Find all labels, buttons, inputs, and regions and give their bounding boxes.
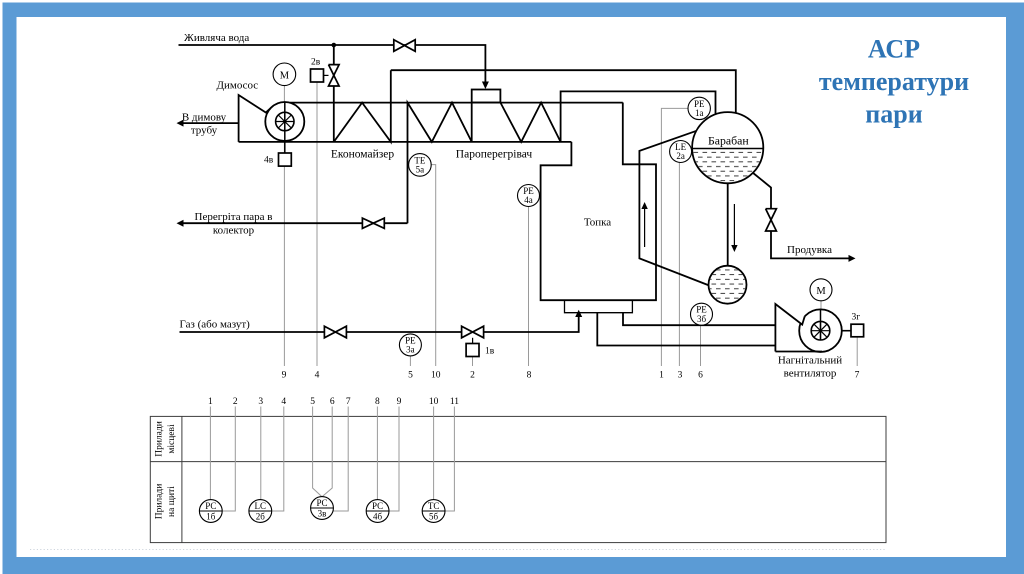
svg-text:3: 3	[678, 371, 683, 381]
wire t8 to PC-4b	[376, 407, 378, 500]
svg-text:РС: РС	[372, 501, 383, 511]
svg-text:Економайзер: Економайзер	[331, 149, 395, 161]
svg-text:1: 1	[659, 371, 664, 381]
svg-text:4а: 4а	[524, 195, 533, 205]
pipe superheated steam to collector	[183, 222, 408, 224]
arrow продувка	[849, 255, 856, 262]
svg-text:9: 9	[282, 371, 287, 381]
table frame	[150, 416, 886, 542]
svg-text:LC: LC	[255, 501, 267, 511]
burner neck under furnace	[565, 300, 633, 313]
wire t4 to LC-2b	[272, 407, 284, 512]
FD fan Нагнітальний вентилятор	[775, 304, 841, 352]
arrow riser up flow	[644, 208, 646, 247]
arrow to collector	[177, 220, 184, 227]
instrument LC-2b	[249, 500, 272, 523]
pipe superheater coil	[408, 91, 716, 223]
table label column divider	[181, 416, 183, 542]
square actuator 4в	[279, 153, 292, 166]
wire signal PE-4a to 8	[528, 207, 530, 367]
wire signal 3г to 7	[856, 337, 858, 366]
attemperator box on superheater	[472, 90, 501, 103]
wire signal M/damper 4в to 9	[283, 86, 285, 366]
pipe economizer coil	[334, 70, 391, 142]
instrument LE-2a	[670, 141, 692, 163]
valve gas V1	[324, 326, 346, 338]
wire t5 to PC-3v	[313, 407, 322, 497]
svg-text:Перегріта пара в: Перегріта пара в	[195, 211, 273, 223]
air duct from FD fan to burner	[597, 313, 775, 346]
pipe feed branch down to economizer	[333, 45, 335, 142]
pipe blowdown	[753, 173, 849, 259]
wire signal motor M to exhauster hub	[820, 301, 822, 331]
instrument PE-3b	[691, 303, 713, 325]
riser channel left line with slants	[639, 131, 709, 286]
svg-text:9: 9	[397, 397, 402, 407]
svg-text:Прилади: Прилади	[155, 421, 165, 457]
svg-text:Продувка: Продувка	[787, 244, 832, 256]
arrow into attemperator	[482, 82, 489, 90]
valve blowdown (vertical)	[766, 209, 777, 231]
table wiring (gray)	[210, 407, 454, 512]
svg-text:6: 6	[330, 397, 335, 407]
wire t3 to LC-2b	[260, 407, 262, 500]
instrument PC-4b	[366, 500, 389, 523]
smoke exhauster Димосос	[239, 95, 305, 153]
instrument PC-1b	[199, 500, 222, 523]
svg-text:1в: 1в	[485, 347, 495, 357]
svg-text:3: 3	[258, 397, 263, 407]
wire signal PE-3a to 5	[409, 356, 411, 366]
pipe gas line	[180, 316, 579, 332]
node feed water tee junction	[332, 43, 337, 48]
svg-text:Пароперегрівач: Пароперегрівач	[456, 149, 533, 161]
svg-text:5б: 5б	[429, 511, 439, 521]
valve feed branch 2в (vertical)	[329, 65, 340, 86]
svg-text:1а: 1а	[695, 108, 704, 118]
svg-text:5: 5	[408, 371, 413, 381]
table row divider	[150, 461, 886, 463]
valve collector line	[362, 218, 384, 228]
svg-text:Нагнітальний: Нагнітальний	[778, 355, 842, 367]
svg-text:6: 6	[698, 371, 703, 381]
svg-text:М: М	[816, 286, 826, 297]
svg-text:М: М	[280, 70, 290, 81]
table row label прилади місцеві	[155, 421, 178, 457]
arrow downcomer flow	[733, 204, 735, 246]
svg-text:8: 8	[527, 371, 532, 381]
drum Барабан	[692, 112, 764, 184]
svg-text:Газ (або мазут): Газ (або мазут)	[180, 319, 251, 331]
pipe downcomer drum to mud drum	[727, 183, 729, 266]
faint separator dots near slide bottom	[30, 549, 886, 551]
motor M (FD fan)	[810, 279, 832, 301]
svg-text:колектор: колектор	[213, 224, 255, 236]
instrument PE-3a	[399, 334, 421, 356]
svg-text:4в: 4в	[264, 156, 274, 166]
svg-text:2в: 2в	[311, 58, 321, 68]
square actuator 3г	[851, 324, 864, 337]
svg-text:місцеві: місцеві	[167, 424, 177, 454]
flue duct top line	[290, 102, 623, 104]
svg-text:7: 7	[346, 397, 351, 407]
wire t2 to PC-1b	[222, 407, 235, 512]
flue duct bottom line	[239, 141, 572, 143]
instrument PE-1a	[688, 97, 710, 119]
svg-text:РС: РС	[205, 501, 216, 511]
svg-text:АСР: АСР	[868, 35, 920, 64]
svg-text:Прилади: Прилади	[155, 484, 165, 520]
svg-text:7: 7	[855, 371, 860, 381]
svg-text:температури: температури	[819, 67, 969, 96]
valve feed line V1	[394, 40, 415, 52]
wire signal PE-1a to 1	[661, 108, 688, 366]
wire signal 2в to 4	[316, 82, 318, 366]
instrument TE-5a	[409, 154, 432, 177]
svg-text:Топка: Топка	[584, 217, 611, 229]
svg-text:3б: 3б	[697, 314, 707, 324]
svg-text:Живляча вода: Живляча вода	[184, 32, 249, 44]
mud drum	[707, 265, 749, 306]
svg-text:10: 10	[429, 397, 439, 407]
arrow gas into burner	[575, 310, 582, 317]
svg-text:3а: 3а	[406, 345, 415, 355]
svg-text:1б: 1б	[206, 511, 216, 521]
pipe feed water line	[179, 45, 486, 84]
valve gas V2 with actuator 1в	[462, 326, 484, 338]
wire signal 1в to 2	[472, 357, 474, 366]
square actuator 2в	[311, 69, 324, 82]
instrument TC-5b	[422, 500, 445, 523]
instrument PC-3v	[311, 497, 334, 520]
svg-text:на щиті: на щиті	[167, 486, 177, 517]
pipe economizer outlet to drum	[391, 70, 736, 114]
motor M (exhauster)	[273, 63, 296, 86]
svg-text:2: 2	[233, 397, 238, 407]
svg-text:РС: РС	[316, 498, 327, 508]
svg-text:3г: 3г	[852, 313, 861, 323]
wire t9 to PC-4b	[389, 407, 399, 512]
wire t1 to PC-1b	[209, 407, 211, 500]
arrow to chimney	[183, 122, 239, 124]
wire t10 to TC-5b	[433, 407, 435, 500]
svg-text:5: 5	[310, 397, 315, 407]
svg-text:Димосос: Димосос	[217, 80, 259, 92]
wire t6 to PC-3v	[322, 407, 332, 497]
wire t11 to TC-5b	[445, 407, 454, 512]
svg-text:2: 2	[470, 371, 475, 381]
pipe fan hub to 3г	[842, 330, 851, 332]
svg-text:1: 1	[208, 397, 213, 407]
furnace outline Топка	[541, 103, 656, 301]
title АСР температури пари	[819, 35, 969, 129]
svg-text:пари: пари	[865, 100, 922, 129]
svg-text:4: 4	[315, 371, 320, 381]
svg-text:вентилятор: вентилятор	[784, 368, 837, 380]
table row label прилади на щиті	[155, 484, 178, 520]
svg-text:5а: 5а	[416, 165, 425, 175]
instrument PE-4a	[518, 185, 540, 207]
square actuator 1в	[466, 344, 479, 357]
table column numbers	[208, 397, 459, 407]
svg-text:2б: 2б	[256, 511, 266, 521]
svg-text:ТС: ТС	[428, 501, 440, 511]
svg-text:3в: 3в	[318, 508, 327, 518]
svg-text:4: 4	[281, 397, 286, 407]
wire signal LE-2a to 3	[678, 163, 680, 366]
svg-text:4б: 4б	[373, 511, 383, 521]
svg-text:2а: 2а	[676, 151, 685, 161]
svg-text:Барабан: Барабан	[708, 134, 749, 148]
svg-text:10: 10	[431, 371, 441, 381]
svg-text:В димову: В димову	[182, 112, 227, 124]
wire signal TE-5a to 10	[431, 165, 436, 366]
wire t7 to PC-3v	[333, 407, 348, 512]
wire signal PE-3b to 6	[700, 325, 702, 366]
svg-text:трубу: трубу	[191, 125, 218, 137]
svg-text:8: 8	[375, 397, 380, 407]
svg-text:11: 11	[450, 397, 459, 407]
